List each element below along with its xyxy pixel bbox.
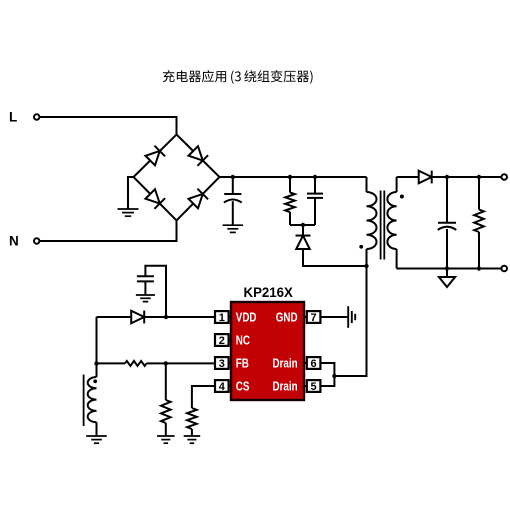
wire N to bridge bottom — [40, 221, 177, 242]
node snubber resistor junction — [288, 175, 292, 179]
wire L to bridge top — [40, 117, 177, 135]
pin 5 box — [304, 385, 307, 387]
svg-text:Drain: Drain — [273, 357, 298, 370]
FB series resistor — [97, 362, 126, 364]
node snubber diode junction — [301, 223, 305, 227]
pin 4 box — [229, 385, 232, 387]
ground below bulk capacitor — [223, 224, 244, 226]
pin 1 box — [229, 316, 232, 318]
svg-text:FB: FB — [236, 357, 249, 370]
bulk capacitor plates — [224, 193, 241, 195]
terminal L — [34, 114, 39, 119]
transformer core — [380, 191, 382, 260]
transformer secondary winding — [396, 177, 398, 192]
node FB divider junction — [164, 361, 168, 365]
wire VDD to FB branch — [96, 317, 98, 363]
node snubber cap junction — [313, 175, 317, 179]
wire secondary top rail — [397, 176, 419, 178]
VDD bypass capacitor — [145, 266, 166, 317]
CS resistor — [187, 408, 197, 429]
wire bridge left vertex to ground — [128, 177, 134, 209]
secondary phase dot — [400, 195, 404, 199]
wire snubber RC bottom join — [290, 224, 315, 226]
node output cap bottom — [445, 266, 449, 270]
svg-text:4: 4 — [219, 381, 226, 393]
svg-text:NC: NC — [236, 334, 250, 347]
svg-text:7: 7 — [311, 312, 317, 324]
svg-text:L: L — [9, 110, 17, 125]
wire pin4 to CS resistor — [192, 386, 215, 408]
terminal output+ — [501, 174, 507, 180]
node output cap top — [445, 175, 449, 179]
bridge diode top-right — [188, 146, 208, 166]
svg-text:1: 1 — [219, 312, 225, 324]
svg-text:CS: CS — [236, 380, 250, 393]
pin 6 box — [304, 362, 307, 364]
output diode — [419, 171, 432, 184]
snubber resistor — [289, 177, 291, 193]
pin 3 box — [229, 362, 232, 364]
ground at bridge left — [118, 208, 139, 210]
node bulk cap junction — [231, 175, 235, 179]
wire drain to primary — [334, 266, 366, 376]
svg-text:6: 6 — [311, 358, 317, 370]
wire bridge output rail — [220, 176, 367, 178]
bridge diamond wires — [134, 135, 220, 221]
wire pin1 to diode — [145, 316, 215, 318]
pin 7 box — [304, 316, 307, 318]
node drain junction — [332, 374, 336, 378]
svg-text:VDD: VDD — [236, 311, 257, 324]
ground below aux winding — [86, 435, 107, 437]
snubber diode — [302, 225, 304, 235]
bridge diode bottom-left — [145, 189, 165, 209]
wire pin7 to ground — [320, 316, 347, 318]
load resistor — [478, 177, 480, 210]
svg-text:KP216X: KP216X — [244, 285, 293, 300]
transformer primary winding — [366, 177, 368, 192]
primary phase dot — [359, 245, 363, 249]
ground triangle at output — [446, 269, 448, 278]
node VDD junction — [164, 315, 168, 319]
terminal output- — [501, 266, 507, 272]
wire output top rail — [432, 176, 503, 178]
ground below VDD capacitor — [136, 294, 155, 296]
node load resistor bottom — [477, 266, 481, 270]
bulk capacitor leads — [232, 177, 234, 194]
aux winding core — [83, 375, 85, 426]
pin 2 box — [229, 339, 232, 341]
bridge diode top-left — [145, 146, 165, 166]
wire pin6 to drain node — [320, 363, 334, 376]
svg-text:5: 5 — [311, 381, 317, 393]
terminal N — [34, 238, 39, 243]
node load resistor top — [477, 175, 481, 179]
VDD diode — [97, 316, 132, 318]
IC body KP216X — [231, 302, 304, 400]
svg-text:GND: GND — [276, 311, 298, 324]
ground below FB resistor — [157, 435, 175, 437]
svg-text:3: 3 — [219, 358, 225, 370]
ground below CS resistor — [184, 435, 201, 437]
wire output bottom rail — [397, 268, 503, 270]
bridge diode bottom-right — [188, 189, 208, 209]
node aux winding junction — [94, 361, 98, 365]
svg-text:2: 2 — [219, 335, 225, 347]
output capacitor — [446, 177, 448, 223]
svg-text:Drain: Drain — [273, 380, 298, 393]
FB lower resistor — [165, 363, 167, 400]
svg-text:N: N — [9, 234, 19, 249]
ground at pin 7 (rotated) — [347, 306, 349, 328]
snubber capacitor — [314, 177, 316, 194]
node primary-drain junction — [364, 264, 368, 268]
aux winding — [96, 363, 98, 377]
wire pin5 to drain node — [320, 376, 334, 386]
aux phase dot — [93, 379, 97, 383]
title text 充电器应用 (3 绕组变压器) — [163, 70, 313, 84]
wire FB resistor to pin3 — [147, 362, 216, 364]
